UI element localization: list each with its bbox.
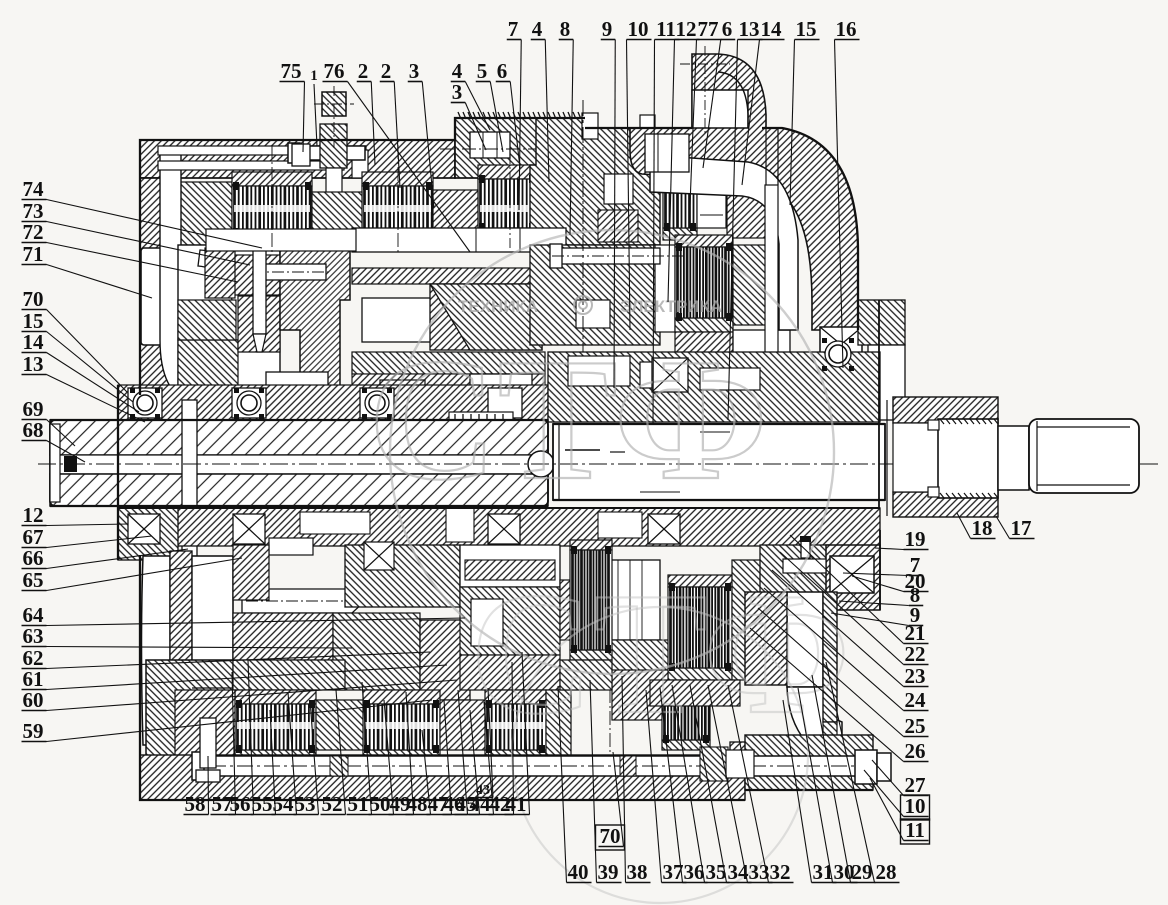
- svg-text:75: 75: [281, 59, 302, 83]
- svg-text:6: 6: [722, 17, 733, 41]
- svg-text:3: 3: [452, 80, 463, 104]
- svg-text:41: 41: [506, 792, 527, 816]
- svg-text:71: 71: [23, 242, 44, 266]
- svg-text:9: 9: [602, 17, 613, 41]
- svg-text:66: 66: [23, 546, 44, 570]
- svg-text:23: 23: [905, 664, 926, 688]
- svg-text:13: 13: [23, 352, 44, 376]
- svg-text:14: 14: [23, 330, 45, 354]
- svg-text:11: 11: [656, 17, 676, 41]
- svg-text:55: 55: [252, 792, 273, 816]
- svg-text:12: 12: [23, 503, 44, 527]
- svg-text:4: 4: [532, 17, 543, 41]
- svg-text:77: 77: [698, 17, 719, 41]
- svg-text:28: 28: [876, 860, 897, 884]
- svg-text:70: 70: [23, 287, 44, 311]
- svg-text:15: 15: [796, 17, 817, 41]
- svg-text:40: 40: [568, 860, 589, 884]
- svg-text:22: 22: [905, 642, 926, 666]
- svg-text:СТФ: СТФ: [470, 556, 850, 750]
- svg-text:7: 7: [508, 17, 519, 41]
- svg-text:58: 58: [185, 792, 206, 816]
- svg-text:16: 16: [836, 17, 857, 41]
- svg-text:5: 5: [477, 59, 488, 83]
- svg-text:1: 1: [310, 68, 318, 84]
- svg-text:17: 17: [1011, 516, 1032, 540]
- svg-text:24: 24: [905, 688, 927, 712]
- svg-text:2: 2: [381, 59, 392, 83]
- svg-text:39: 39: [598, 860, 619, 884]
- svg-text:68: 68: [23, 418, 44, 442]
- svg-text:ЭЛЕКТРИКА: ЭЛЕКТРИКА: [620, 297, 722, 316]
- svg-text:3: 3: [409, 59, 420, 83]
- svg-text:32: 32: [770, 860, 791, 884]
- svg-text:11: 11: [905, 818, 925, 842]
- svg-text:54: 54: [273, 792, 295, 816]
- svg-text:29: 29: [852, 860, 873, 884]
- svg-text:6: 6: [497, 59, 508, 83]
- svg-text:65: 65: [23, 568, 44, 592]
- svg-text:12: 12: [676, 17, 697, 41]
- svg-text:10: 10: [905, 794, 926, 818]
- svg-text:60: 60: [23, 688, 44, 712]
- svg-text:43: 43: [476, 783, 490, 798]
- svg-text:СТФ: СТФ: [368, 322, 768, 516]
- svg-text:53: 53: [295, 792, 316, 816]
- svg-text:76: 76: [324, 59, 345, 83]
- svg-text:56: 56: [230, 792, 251, 816]
- svg-text:59: 59: [23, 719, 44, 743]
- svg-text:70: 70: [600, 824, 621, 848]
- svg-text:10: 10: [628, 17, 649, 41]
- svg-text:52: 52: [322, 792, 343, 816]
- svg-text:13: 13: [739, 17, 760, 41]
- svg-text:19: 19: [905, 527, 926, 551]
- svg-text:26: 26: [905, 739, 926, 763]
- svg-text:50: 50: [370, 792, 391, 816]
- svg-text:18: 18: [972, 516, 993, 540]
- svg-text:48: 48: [407, 792, 428, 816]
- svg-text:8: 8: [560, 17, 571, 41]
- svg-text:14: 14: [761, 17, 783, 41]
- svg-text:74: 74: [23, 177, 45, 201]
- svg-text:72: 72: [23, 220, 44, 244]
- svg-text:ТЕХНИКА: ТЕХНИКА: [458, 297, 538, 316]
- svg-text:63: 63: [23, 624, 44, 648]
- svg-text:2: 2: [358, 59, 369, 83]
- svg-text:38: 38: [627, 860, 648, 884]
- svg-text:51: 51: [348, 792, 369, 816]
- svg-text:25: 25: [905, 714, 926, 738]
